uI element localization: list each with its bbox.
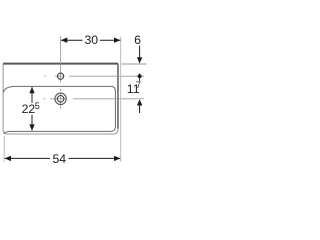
centerline drain hole horizontal [43,98,144,100]
diamond node tap centerline [137,73,142,79]
dim 30 line [61,39,120,41]
svg-text:5: 5 [35,101,40,111]
dim 54 arrow left [5,156,11,161]
dim 30 arrow left [61,38,67,43]
svg-text:6: 6 [134,33,141,47]
basin top edge [3,63,118,65]
drain hole inner [57,96,64,103]
dim 11.7 arrow up [137,99,142,105]
basin inner rim outline [3,86,115,134]
dim 54 line [5,157,120,159]
dim 30 arrow right [114,38,120,43]
drain hole outer [55,93,66,104]
svg-text:7: 7 [136,80,141,90]
dim 6 arrow down [139,46,141,59]
dim 22.5 line [31,87,33,130]
svg-text:22: 22 [22,102,36,116]
dim 54 arrow right [114,156,120,161]
tap hole [58,73,64,79]
basin outer silhouette [3,64,118,134]
centerline tap hole horizontal [44,75,144,77]
extension line left (54) [3,136,5,162]
dim 22.5 arrow down [29,124,34,130]
tick top edge extension right [121,63,146,65]
svg-text:30: 30 [84,33,98,47]
extension line right (30/54) [120,37,122,162]
dim 22.5 arrow up [29,87,34,93]
centerline vertical through holes [60,36,62,108]
basin right edge dark [117,65,119,129]
svg-text:54: 54 [52,152,66,166]
